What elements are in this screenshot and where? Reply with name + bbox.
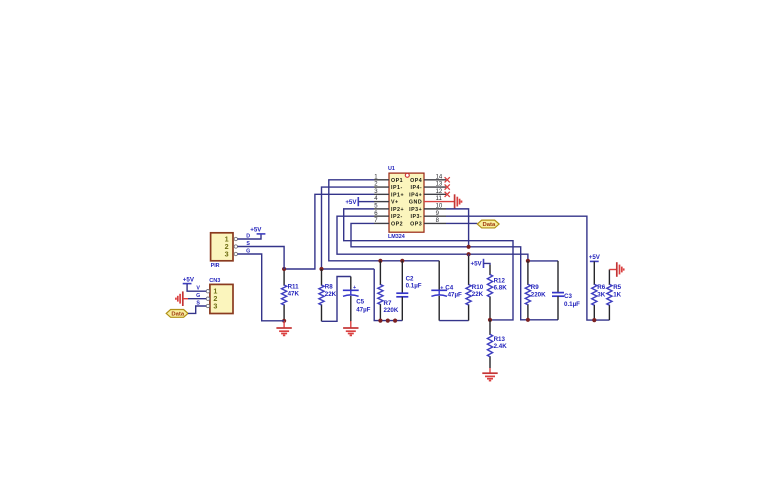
svg-text:OP4: OP4 [410,178,422,184]
resistor R9 220K [527,261,529,285]
svg-text:D: D [246,233,250,239]
connector CN3 body [210,284,233,313]
ground at C5 [350,321,352,328]
node IP2- R9 top junction [526,259,530,263]
svg-text:47µF: 47µF [448,291,462,298]
svg-text:22K: 22K [325,291,337,298]
node R11 top [282,267,286,271]
svg-text:47K: 47K [288,291,300,298]
svg-text:PIR: PIR [211,263,220,269]
svg-text:+: + [440,285,443,291]
svg-text:+5V: +5V [471,261,483,268]
svg-text:C2: C2 [406,276,414,283]
svg-text:R11: R11 [288,283,300,290]
wire C4 R10 bottom rail [439,320,468,322]
svg-text:V+: V+ [391,200,399,206]
wire PIR pin3 to ground rail [238,254,285,321]
svg-text:220K: 220K [384,307,399,314]
power wire pin 11 GND [424,201,455,203]
resistor R7 220K [379,261,381,285]
node OP1 to R7 [378,259,382,263]
wire first-stage bottom rail [374,269,402,321]
svg-text:G: G [246,248,250,254]
capacitor C2 0.1uF [401,261,403,293]
PIR pin circles [234,237,237,240]
+5V at pin 4 [357,197,359,206]
svg-text:OP3: OP3 [410,221,422,227]
svg-text:R6: R6 [597,284,605,291]
U1 right pin stubs [424,179,446,181]
svg-text:IP4+: IP4+ [409,192,422,198]
svg-text:R5: R5 [613,284,621,291]
svg-text:+5V: +5V [250,227,262,234]
svg-text:Data: Data [171,312,184,318]
node pin10 on OP2 line [467,245,471,249]
svg-text:47µF: 47µF [356,306,370,313]
node rail junction b [393,319,397,323]
U1 left pin stubs [374,179,389,181]
node IP1- R8 junction [319,267,323,271]
wire +5V to pin 4 [358,201,374,203]
Data tag right [477,220,499,228]
svg-text:R8: R8 [325,284,333,291]
svg-text:C5: C5 [356,298,364,305]
svg-text:G: G [196,293,200,299]
IC U1 LM324 body [389,173,424,232]
wire pin 8 OP3 to Data tag [446,222,477,224]
svg-text:OP1: OP1 [391,178,403,184]
resistor R11 47K [283,269,285,286]
ground at R13 [489,368,491,373]
wire pin2 node to rail [322,268,375,270]
node R6 bottom [592,318,596,322]
svg-text:GND: GND [409,200,422,206]
+5V at R6 [590,260,599,262]
capacitor C4 47uF electrolytic [438,261,440,291]
node OP1 to C2 [400,259,404,263]
svg-text:IP2-: IP2- [391,214,403,220]
svg-text:+5V: +5V [589,254,601,261]
wire pin 7 OP2 loop [351,223,558,319]
node rail junction a [386,319,390,323]
svg-text:CN3: CN3 [209,278,220,284]
node R7 bottom [378,319,382,323]
wire pin 3 IP1+ down [284,194,374,269]
svg-text:R12: R12 [494,277,506,284]
svg-text:R10: R10 [472,284,484,291]
connector PIR body [211,233,233,261]
svg-text:R7: R7 [384,300,392,307]
svg-text:220K: 220K [531,291,546,298]
svg-text:+5V: +5V [183,276,195,283]
+5V above PIR [257,233,266,235]
wire IP2- line drop to R10 [468,254,470,256]
resistor R8 22K [321,269,323,286]
wire pin 9 IP3- to divider [446,216,609,320]
svg-text:0.1µF: 0.1µF [564,301,580,308]
resistor R6 3K [593,261,595,285]
+5V above CN3 [183,283,192,285]
svg-text:R9: R9 [531,284,539,291]
node R11 bottom ground [282,319,286,323]
svg-text:+: + [353,285,356,291]
+5V at R12 [483,259,485,268]
svg-text:1K: 1K [613,291,621,298]
no-connect X pin 13 [445,184,450,189]
svg-text:LM324: LM324 [388,234,405,240]
svg-text:V: V [196,286,200,292]
wire Data to CN3 pin3 [188,306,206,313]
wire pin 1 OP1 loop [329,180,439,261]
wire +5V to R12 [484,263,491,265]
svg-text:3: 3 [225,249,229,258]
Data tag left [166,310,188,318]
svg-text:0.1µF: 0.1µF [406,283,422,290]
wire IP2- to R9 C3 top [528,260,558,262]
wire pin 5 IP2+ loop [344,209,513,320]
wire R8 bottom to C5 top [322,277,351,322]
svg-text:IP3+: IP3+ [409,207,422,213]
svg-text:C3: C3 [564,293,572,300]
capacitor C5 47uF electrolytic [350,277,352,291]
svg-text:22K: 22K [472,291,484,298]
node R12 R13 divider [488,318,492,322]
ground at R11 [283,321,285,328]
resistor R10 22K [468,256,470,285]
svg-text:IP1+: IP1+ [391,192,404,198]
wire ground to CN3 pin2 [183,298,188,300]
node IP2- line to R10 [467,252,471,256]
svg-text:IP3-: IP3- [410,214,422,220]
wire pin 2 IP1- down [322,187,375,269]
node R9 bottom [526,318,530,322]
svg-text:3K: 3K [597,291,605,298]
no-connect X pin 14 [445,177,450,182]
svg-text:+5V: +5V [345,199,357,206]
ground left of CN3 [182,291,184,306]
wire PIR pin1 to +5V [238,234,262,239]
resistor R5 1K [608,270,610,285]
svg-text:S: S [246,241,250,247]
svg-text:OP2: OP2 [391,221,403,227]
no-connect X pin 12 [445,192,450,197]
resistor R13 2.4K [489,320,491,335]
ground at pin 11 [454,194,456,209]
svg-text:2.4K: 2.4K [494,343,508,350]
svg-text:S: S [196,300,200,306]
wire +5V to CN3 pin1 [187,284,206,292]
svg-text:U1: U1 [388,166,395,172]
CN3 pin circles [206,290,209,293]
ground right of R5 [609,269,616,271]
wire pin 10 IP3+ to OP2 net [446,209,469,247]
svg-text:6.8K: 6.8K [494,285,508,292]
capacitor C3 0.1uF [557,261,559,293]
svg-text:R13: R13 [494,336,506,343]
wire PIR pin2 signal [238,247,285,270]
svg-text:3: 3 [213,301,217,310]
svg-text:IP1-: IP1- [391,185,403,191]
wire pin 6 IP2- loop [337,216,528,261]
resistor R12 6.8K [489,265,491,275]
svg-text:Data: Data [483,222,496,228]
svg-text:IP2+: IP2+ [391,207,404,213]
svg-text:IP4-: IP4- [410,185,422,191]
